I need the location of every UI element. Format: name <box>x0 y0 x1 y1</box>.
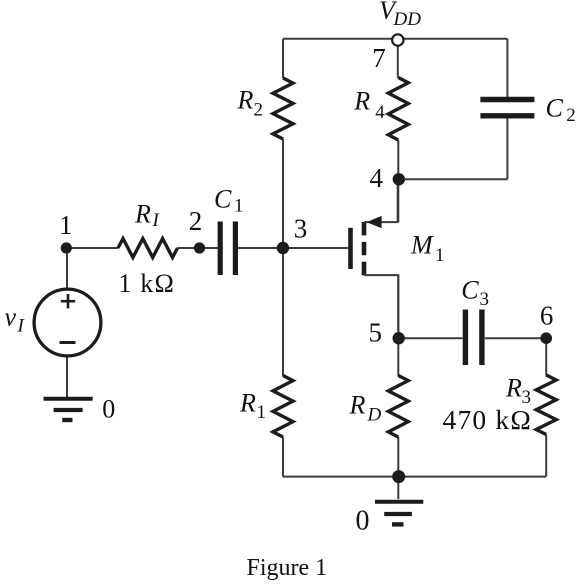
svg-text:R: R <box>237 86 254 115</box>
svg-text:7: 7 <box>372 43 386 73</box>
svg-text:4: 4 <box>375 102 385 123</box>
label R1 <box>239 388 266 423</box>
label VDD <box>379 0 421 30</box>
wire <box>283 476 546 478</box>
svg-text:6: 6 <box>540 300 554 330</box>
wire <box>506 39 508 97</box>
svg-text:1: 1 <box>59 210 73 240</box>
transistor M1 gate bar <box>348 228 353 269</box>
wire <box>545 435 547 477</box>
label R2 <box>237 86 264 121</box>
wire <box>506 119 508 180</box>
svg-text:2: 2 <box>566 105 576 126</box>
svg-text:C: C <box>546 94 564 123</box>
wire <box>66 248 68 289</box>
wire <box>283 38 507 40</box>
wire <box>485 337 546 339</box>
wire <box>398 178 507 180</box>
resistor RI <box>118 239 178 258</box>
resistor RD <box>388 376 408 438</box>
svg-text:5: 5 <box>368 317 382 347</box>
svg-text:D: D <box>367 405 382 426</box>
wire <box>397 46 399 79</box>
wire <box>238 247 283 249</box>
node 5 junction <box>393 332 405 344</box>
node 3 junction <box>277 242 289 254</box>
node 4 junction <box>393 173 405 185</box>
svg-text:v: v <box>5 303 17 332</box>
svg-text:DD: DD <box>393 9 422 30</box>
svg-text:R: R <box>134 200 151 229</box>
wire <box>397 275 399 376</box>
transistor M1 arrow <box>367 216 382 228</box>
svg-text:C: C <box>461 276 479 305</box>
capacitor C2 <box>480 100 534 116</box>
svg-text:3: 3 <box>480 289 490 310</box>
svg-text:470 kΩ: 470 kΩ <box>443 404 533 435</box>
wire <box>398 337 462 339</box>
capacitor C3 <box>465 310 482 366</box>
voltage source minus sign <box>60 341 76 344</box>
label R4 <box>353 86 385 123</box>
wire <box>545 338 547 375</box>
wire <box>178 247 218 249</box>
svg-text:M: M <box>410 231 434 260</box>
label C2 <box>546 94 576 126</box>
svg-text:R: R <box>505 374 522 403</box>
label RI <box>134 200 161 232</box>
node 6 junction <box>540 332 552 344</box>
svg-text:R: R <box>349 391 366 420</box>
wire <box>397 140 399 222</box>
svg-text:1 kΩ: 1 kΩ <box>118 269 175 298</box>
label C1 <box>214 185 244 217</box>
ground (left, node 0) <box>44 399 93 420</box>
svg-text:0: 0 <box>102 395 115 424</box>
svg-text:Figure 1: Figure 1 <box>247 555 328 581</box>
svg-text:R: R <box>353 86 370 115</box>
transistor M1 drain wire <box>364 179 398 222</box>
wire <box>282 39 284 78</box>
capacitor C1 <box>220 222 235 276</box>
wire <box>283 247 348 249</box>
transistor M1 channel (dashed) <box>362 222 367 275</box>
resistor R1 <box>273 376 293 438</box>
resistor R4 <box>388 78 408 141</box>
node 2 junction <box>194 242 205 253</box>
voltage source plus sign <box>61 294 75 308</box>
svg-text:1: 1 <box>435 245 445 266</box>
svg-text:2: 2 <box>189 206 203 236</box>
wire <box>282 139 284 376</box>
resistor R3 <box>536 375 556 435</box>
label vI <box>5 303 26 337</box>
svg-text:1: 1 <box>257 402 267 423</box>
wire <box>67 247 118 249</box>
svg-text:4: 4 <box>370 163 384 193</box>
voltage source vI circle <box>34 289 101 356</box>
svg-text:0: 0 <box>356 505 370 536</box>
label RD <box>349 391 382 426</box>
label R3 <box>505 374 531 409</box>
power node VDD (open circle) <box>392 34 403 45</box>
svg-text:R: R <box>239 388 256 417</box>
wire <box>282 437 284 477</box>
svg-text:C: C <box>214 185 232 214</box>
transistor M1 source wire <box>364 275 398 338</box>
node 0 junction (bottom rail) <box>392 470 405 483</box>
wire <box>397 477 399 499</box>
label C3 <box>461 276 489 310</box>
svg-text:3: 3 <box>294 213 308 243</box>
svg-text:2: 2 <box>254 99 264 120</box>
wire <box>397 437 399 477</box>
label M1 <box>410 231 445 267</box>
resistor R2 <box>273 78 293 139</box>
wire <box>66 357 68 398</box>
node 1 junction <box>61 242 72 253</box>
ground (bottom, node 0) <box>375 502 423 525</box>
svg-text:1: 1 <box>234 195 244 216</box>
